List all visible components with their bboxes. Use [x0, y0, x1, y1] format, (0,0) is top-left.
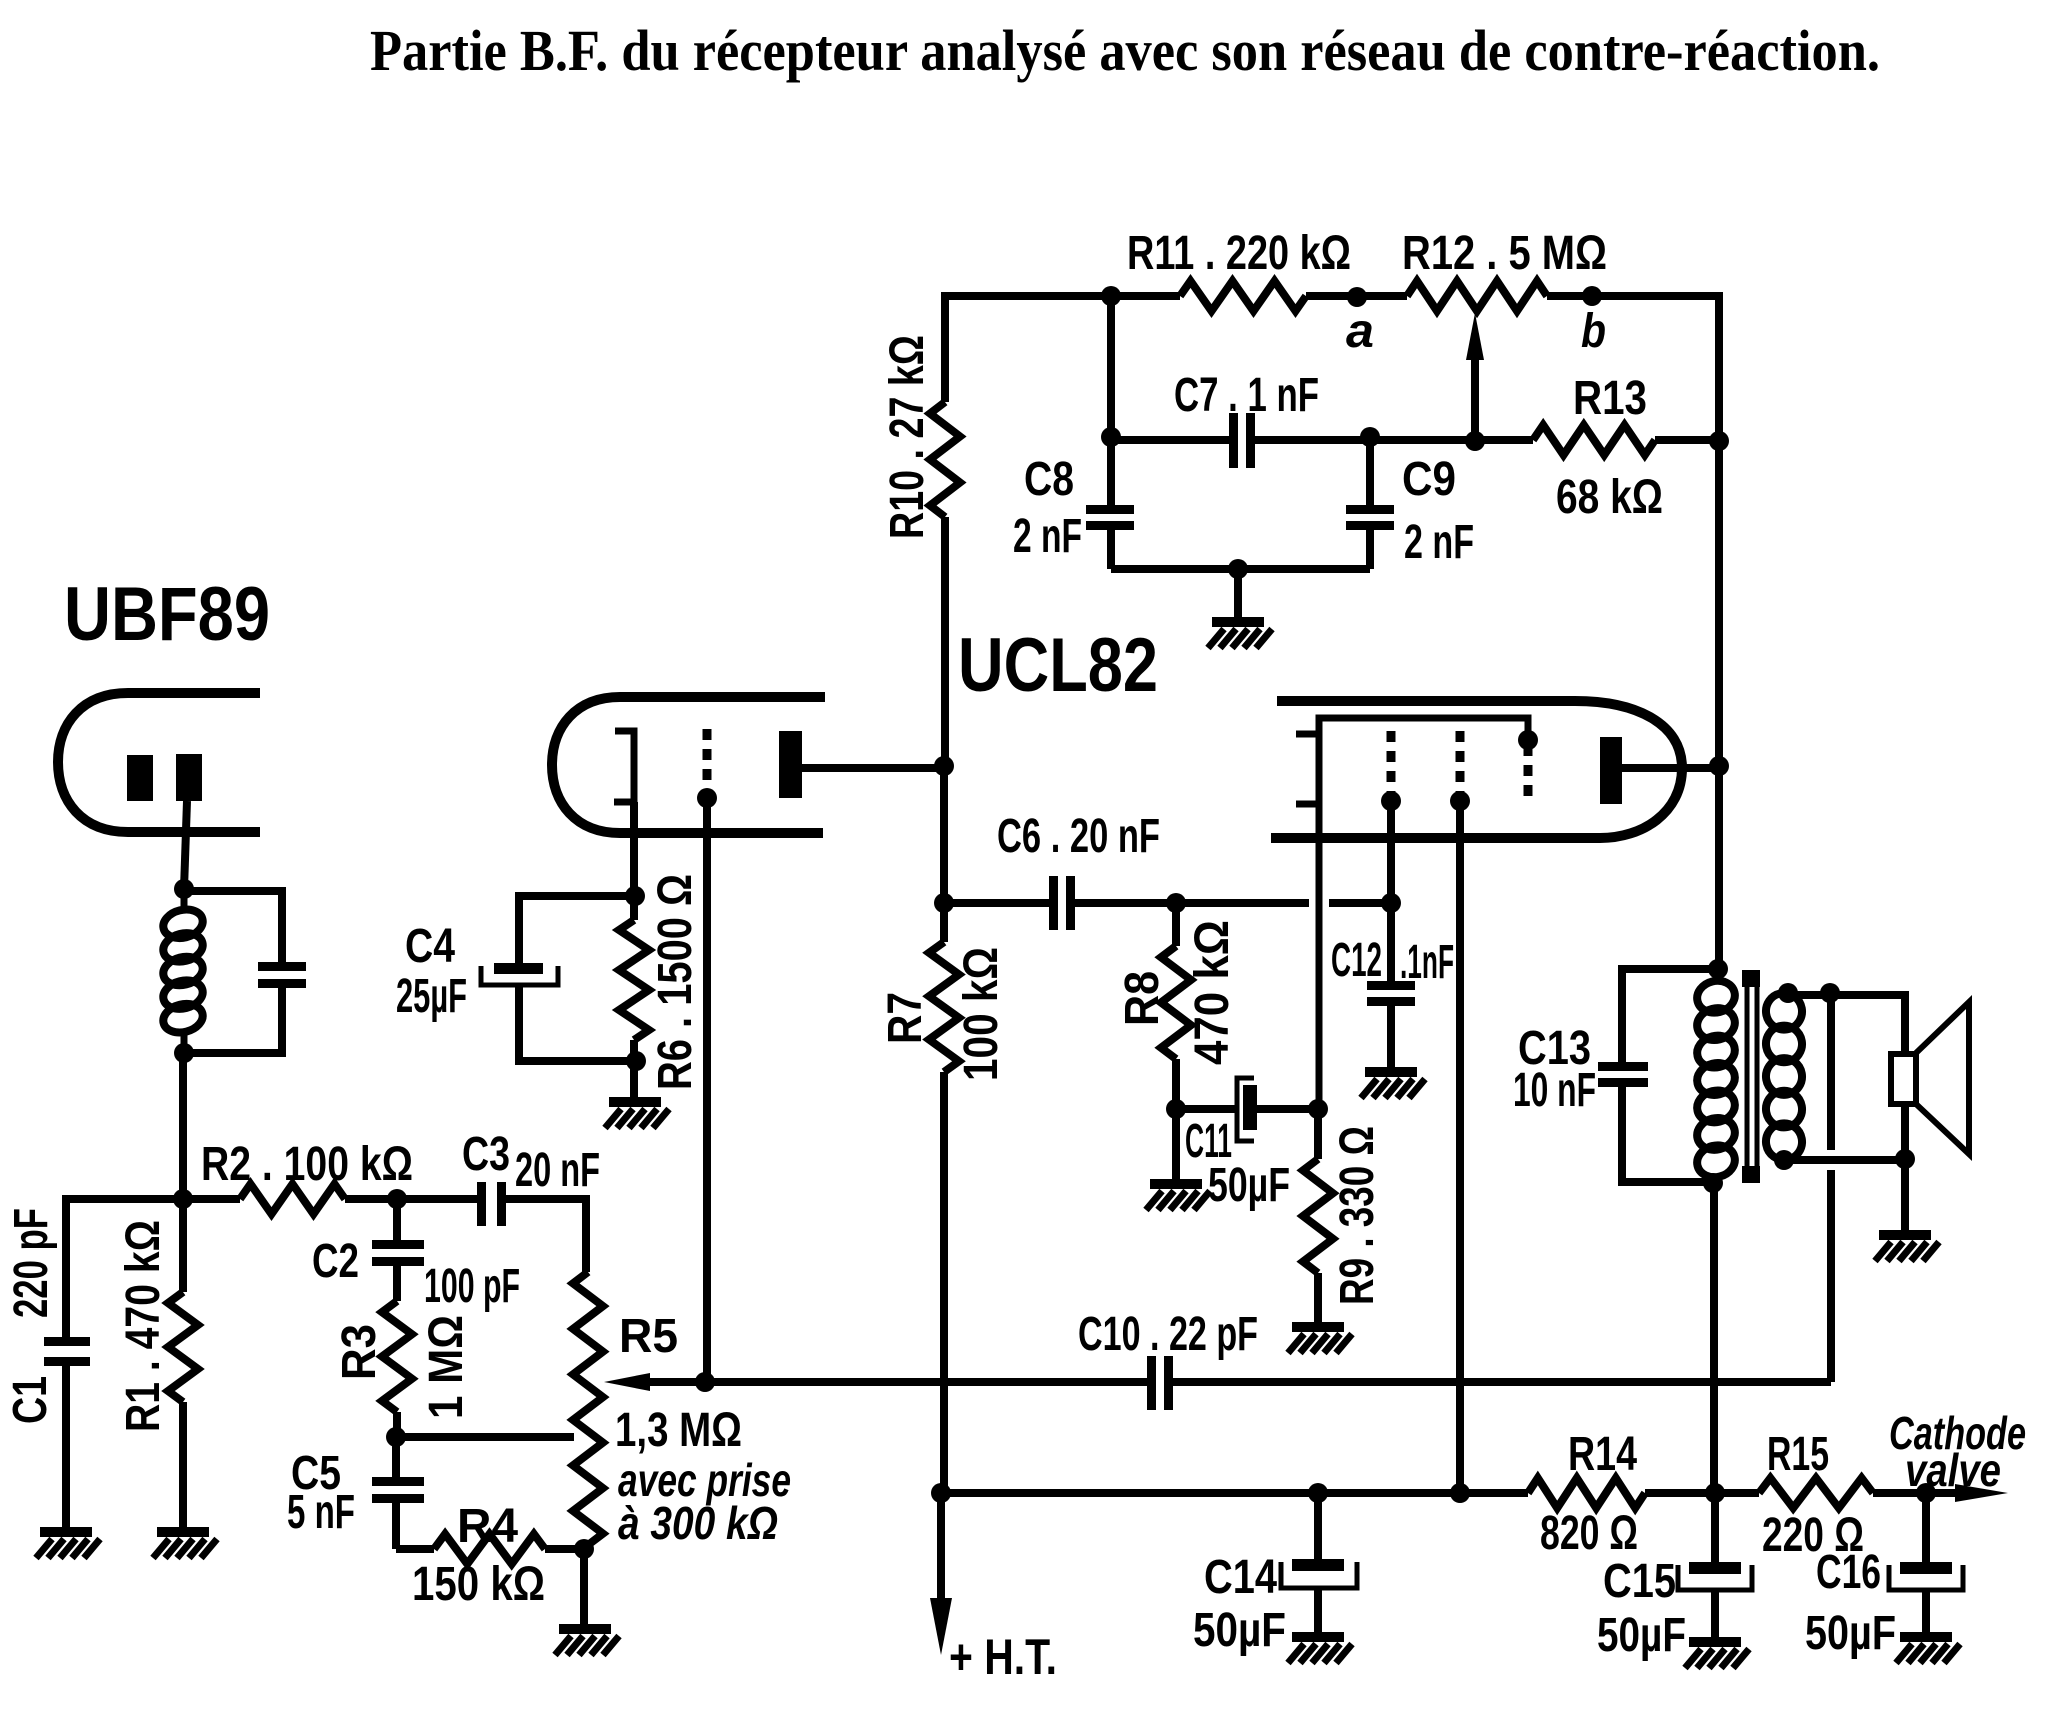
node R2/C2/C3	[387, 1189, 407, 1209]
capacitor C9 2nF	[1366, 437, 1374, 505]
tube UBF89 diode plate 1	[127, 755, 153, 801]
transformer primary winding	[1715, 969, 1722, 983]
wire right rail	[1715, 440, 1723, 969]
svg-text:50µF: 50µF	[1597, 1609, 1686, 1662]
svg-text:150 kΩ: 150 kΩ	[412, 1558, 545, 1611]
tube pentode grid1 (dashed)	[1387, 731, 1396, 795]
svg-text:R11 . 220 kΩ: R11 . 220 kΩ	[1127, 227, 1351, 280]
transformer secondary winding	[1763, 990, 1805, 1032]
wire triode cathode lead	[630, 802, 638, 896]
capacitor C12 1nF	[1387, 903, 1395, 981]
svg-text:C2: C2	[312, 1235, 359, 1288]
node grid junction	[695, 1372, 715, 1392]
svg-text:C16: C16	[1816, 1546, 1881, 1599]
node C11/R9/cathode	[1308, 1099, 1328, 1119]
arrow cathode valve	[1955, 1484, 2008, 1502]
wire to C7	[1111, 436, 1229, 444]
ground C12	[1365, 1067, 1417, 1077]
wire tap to R5	[396, 1433, 574, 1441]
tube pentode cathode and g3 strap	[1319, 718, 1528, 1109]
tube pentode cathode stubs	[1296, 734, 1319, 804]
svg-text:R2 . 100 kΩ: R2 . 100 kΩ	[201, 1138, 413, 1191]
node bus grid2	[1450, 1483, 1470, 1503]
resistor R15 220	[1759, 1478, 1873, 1508]
ground C11/R8	[1150, 1179, 1202, 1189]
svg-text:UBF89: UBF89	[64, 572, 270, 657]
svg-text:20 nF: 20 nF	[515, 1144, 600, 1197]
node R6 bottom	[626, 1051, 646, 1071]
wire R15 to arrow	[1873, 1489, 1958, 1497]
svg-text:C3: C3	[462, 1128, 510, 1181]
wire to ground C8C9	[1234, 569, 1242, 617]
node bus C14	[1308, 1483, 1328, 1503]
wire transformer to R2 node	[179, 1053, 187, 1199]
node ground junction C8C9	[1228, 559, 1248, 579]
node bus left	[931, 1483, 951, 1503]
svg-text:R10 . 27 kΩ: R10 . 27 kΩ	[881, 335, 934, 539]
resistor R6 1500	[630, 896, 638, 920]
capacitor C14 50uF electrolytic	[1314, 1493, 1322, 1559]
wire R10 to plate node	[941, 517, 949, 766]
svg-text:68 kΩ: 68 kΩ	[1556, 471, 1663, 524]
ground C16	[1900, 1632, 1952, 1642]
capacitor C3 20nF	[477, 1182, 486, 1226]
node secondary top right	[1820, 983, 1840, 1003]
resistor R12 5M potentiometer	[1407, 281, 1547, 311]
svg-text:220 pF: 220 pF	[5, 1208, 58, 1318]
resistor R10 27k	[930, 402, 960, 517]
capacitor C7 1nF	[1229, 413, 1238, 468]
capacitor C6 20nF	[944, 899, 1049, 907]
wire R12 to b	[1547, 296, 1719, 440]
node grid3 tip	[1518, 730, 1538, 750]
node triode grid tip	[697, 788, 717, 808]
svg-text:10 nF: 10 nF	[1513, 1064, 1596, 1117]
resistor R4 150k	[396, 1545, 434, 1553]
ground R9	[1292, 1322, 1344, 1332]
svg-text:470 kΩ: 470 kΩ	[1186, 920, 1239, 1065]
node grid1/C6/C12	[1381, 893, 1401, 913]
node R8 top	[1166, 893, 1186, 913]
svg-text:b: b	[1581, 305, 1606, 358]
wire triode plate lead	[802, 764, 944, 772]
ground C14	[1292, 1632, 1344, 1642]
resistor R11 220k	[1180, 281, 1306, 311]
svg-text:R14: R14	[1568, 1428, 1637, 1481]
svg-text:2 nF: 2 nF	[1013, 510, 1082, 563]
capacitor C10 22pF	[1147, 1356, 1156, 1410]
wire feedback riser	[1827, 993, 1835, 1382]
capacitor C11 50uF electrolytic	[1176, 1105, 1236, 1113]
wire R5 to ground	[580, 1549, 588, 1624]
speaker cone	[1916, 1002, 1969, 1154]
wire C13 bottom link	[1622, 1087, 1712, 1182]
resistor R13 68k	[1533, 425, 1655, 455]
wire C13 top link	[1622, 969, 1718, 1062]
svg-text:C15: C15	[1603, 1555, 1676, 1608]
wire C4 bottom link	[519, 985, 636, 1061]
wire grid2 lead	[1456, 801, 1464, 1493]
ground C1	[40, 1527, 92, 1537]
tube pentode plate	[1600, 737, 1622, 804]
capacitor C1 220pF	[44, 1337, 90, 1346]
capacitor tank (parallel with T1)	[258, 962, 306, 971]
resistor R9 330	[1314, 1109, 1322, 1159]
node a	[1347, 287, 1367, 307]
svg-text:C6 . 20 nF: C6 . 20 nF	[997, 810, 1160, 863]
wire bus left	[941, 1489, 1528, 1497]
node grid1 tip	[1381, 791, 1401, 811]
potentiometer R5 1.3M	[573, 1272, 603, 1545]
svg-text:1,3 MΩ: 1,3 MΩ	[615, 1404, 742, 1457]
wire primary bottom to bus	[1710, 1183, 1718, 1493]
wire speaker to bottom node	[1901, 1104, 1909, 1159]
ground speaker	[1879, 1230, 1931, 1240]
capacitor C13 10nF	[1598, 1062, 1648, 1071]
node R13 right	[1709, 431, 1729, 451]
svg-text:C14: C14	[1204, 1551, 1277, 1604]
node R8/C11	[1166, 1099, 1186, 1119]
svg-text:R1 . 470 kΩ: R1 . 470 kΩ	[117, 1220, 170, 1432]
wiper arrow R12	[1466, 313, 1484, 360]
node R6 top	[625, 886, 645, 906]
wire R6 top link	[519, 896, 635, 963]
wire HT stem	[937, 1493, 945, 1600]
svg-text:100 pF: 100 pF	[424, 1260, 520, 1313]
node C9 top	[1360, 427, 1380, 447]
svg-text:C4: C4	[405, 920, 455, 973]
wire R8 node to ground	[1172, 1109, 1180, 1179]
transformer T1 winding	[181, 889, 188, 912]
ground R6	[609, 1097, 661, 1107]
wire R11 to a	[1306, 292, 1407, 300]
svg-text:R15: R15	[1767, 1428, 1829, 1481]
capacitor C4 25uF electrolytic	[494, 963, 543, 974]
svg-text:C8: C8	[1024, 453, 1074, 506]
svg-text:100 kΩ: 100 kΩ	[955, 947, 1008, 1081]
ground C8/C9	[1212, 617, 1264, 627]
svg-text:R9 . 330 Ω: R9 . 330 Ω	[1331, 1126, 1384, 1305]
resistor R14 820	[1528, 1478, 1645, 1508]
arrow +H.T.	[930, 1598, 952, 1655]
wire top-left corner	[945, 296, 1180, 402]
wire speaker ground stem	[1901, 1159, 1909, 1230]
svg-text:50µF: 50µF	[1805, 1607, 1896, 1660]
tube pentode grid3 (dashed)	[1524, 745, 1533, 800]
wire secondary bottom	[1784, 1156, 1905, 1164]
svg-text:R7: R7	[879, 992, 932, 1044]
wire feedback line left	[646, 1378, 705, 1386]
wire C7 to wiper node	[1255, 436, 1475, 444]
svg-text:C12: C12	[1331, 934, 1382, 987]
ground R5	[559, 1624, 611, 1634]
node grid2 tip	[1450, 791, 1470, 811]
node top wire left	[1101, 286, 1121, 306]
speaker driver	[1891, 1054, 1916, 1104]
wire feedback line to C10	[705, 1378, 1147, 1386]
node C6 junction	[934, 893, 954, 913]
ground R1	[157, 1527, 209, 1537]
capacitor C8 2nF	[1107, 437, 1115, 505]
wire C1 to ground	[62, 1366, 70, 1527]
svg-text:1 MΩ: 1 MΩ	[420, 1315, 473, 1419]
wire grid1 lead	[1387, 801, 1395, 903]
wiper arrow into R5	[604, 1373, 650, 1391]
node speaker bottom	[1895, 1149, 1915, 1169]
node R2 left junction	[173, 1189, 193, 1209]
node R4/R5 bottom	[574, 1539, 594, 1559]
node secondary top left	[1778, 983, 1798, 1003]
svg-text:UCL82: UCL82	[958, 623, 1158, 708]
node bus C16	[1916, 1483, 1936, 1503]
tube UCL82 triode envelope	[552, 697, 825, 833]
node R3/C5/tap	[386, 1427, 406, 1447]
node transformer top	[174, 879, 194, 899]
wire feedback line right	[1173, 1378, 1831, 1386]
node pentode plate junction	[1709, 756, 1729, 776]
resistor R3 1M	[382, 1301, 412, 1412]
svg-text:+ H.T.: + H.T.	[949, 1629, 1057, 1685]
svg-text:C10 . 22 pF: C10 . 22 pF	[1078, 1308, 1258, 1361]
resistor R7 100k	[940, 903, 948, 942]
svg-text:2 nF: 2 nF	[1404, 516, 1474, 569]
node bus C15	[1705, 1483, 1725, 1503]
wire pentode plate lead	[1622, 764, 1719, 772]
resistor R8 470k	[1172, 903, 1180, 946]
wire R13 to right rail	[1655, 436, 1719, 444]
svg-text:R3: R3	[333, 1324, 386, 1380]
wire plate node to C6 node	[940, 766, 948, 903]
svg-text:a: a	[1346, 305, 1374, 358]
node secondary bottom	[1774, 1150, 1794, 1170]
wire C8-C9 bottom	[1111, 565, 1370, 573]
node wiper junction	[1465, 431, 1485, 451]
resistor R1 470k	[179, 1199, 187, 1292]
ground C15	[1689, 1637, 1741, 1647]
svg-text:50µF: 50µF	[1208, 1159, 1290, 1212]
capacitor C16 50uF electrolytic	[1922, 1493, 1930, 1562]
wire R14 to C15 node	[1645, 1489, 1759, 1497]
svg-text:R4: R4	[457, 1500, 518, 1553]
svg-text:C1: C1	[4, 1376, 57, 1424]
tube UBF89 diode plate 2	[176, 754, 202, 801]
svg-text:Partie B.F. du récepteur analy: Partie B.F. du récepteur analysé avec so…	[370, 18, 1880, 83]
svg-text:R12 . 5 MΩ: R12 . 5 MΩ	[1402, 227, 1607, 280]
wire C3 to R5 top	[506, 1199, 586, 1272]
svg-text:5 nF: 5 nF	[287, 1486, 355, 1539]
capacitor C5 5nF	[392, 1437, 400, 1477]
resistor R2 100k	[183, 1195, 240, 1203]
svg-text:C9: C9	[1402, 453, 1456, 506]
tube triode plate	[779, 731, 802, 798]
wire triode grid lead	[703, 798, 711, 1382]
svg-text:R8: R8	[1116, 971, 1169, 1026]
wire secondary top to speaker	[1784, 995, 1905, 1054]
wire wiper to R13	[1475, 436, 1533, 444]
svg-text:R13: R13	[1573, 372, 1647, 425]
node transformer bottom	[174, 1043, 194, 1063]
svg-text:C7 . 1 nF: C7 . 1 nF	[1174, 369, 1319, 422]
svg-text:à 300 kΩ: à 300 kΩ	[618, 1497, 778, 1549]
node b	[1582, 286, 1602, 306]
svg-text:50µF: 50µF	[1193, 1604, 1286, 1657]
node C7 left	[1101, 427, 1121, 447]
capacitor C2 100pF	[393, 1199, 401, 1240]
tube UBF89 envelope	[58, 693, 260, 832]
wire node to C3	[397, 1195, 477, 1203]
node triode plate junction	[934, 756, 954, 776]
tube pentode grid2 (dashed)	[1456, 731, 1465, 795]
svg-text:R6 . 1500 Ω: R6 . 1500 Ω	[649, 874, 702, 1090]
wire UBF89 plate to transformer	[184, 801, 187, 889]
svg-text:valve: valve	[1905, 1444, 2001, 1496]
capacitor C15 50uF electrolytic	[1711, 1493, 1719, 1562]
tube triode cathode	[614, 731, 634, 802]
svg-text:R5: R5	[619, 1310, 678, 1363]
svg-text:820 Ω: 820 Ω	[1540, 1507, 1638, 1560]
tube triode grid (dashed)	[703, 729, 712, 793]
tube UCL82 pentode envelope	[1271, 701, 1682, 838]
wire tank top link	[184, 891, 282, 962]
svg-text:.1nF: .1nF	[1400, 936, 1454, 989]
wire C7 row left	[1107, 296, 1115, 437]
svg-text:25µF: 25µF	[396, 970, 467, 1023]
wire to C1	[66, 1199, 183, 1337]
node primary bottom	[1703, 1173, 1723, 1193]
transformer core	[1747, 972, 1757, 1182]
node primary top	[1708, 959, 1728, 979]
wire tank bottom link	[184, 988, 282, 1053]
